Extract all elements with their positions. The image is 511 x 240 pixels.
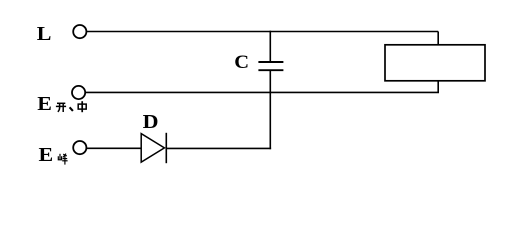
wire top (L to right corner) — [87, 31, 439, 33]
label E peak — [39, 143, 54, 166]
label L — [37, 22, 52, 45]
svg-text:E: E — [37, 92, 52, 115]
wire bottom left (E peak to diode) — [87, 147, 142, 149]
svg-text:E: E — [39, 143, 54, 166]
svg-text:D: D — [143, 110, 159, 133]
label E mid — [37, 92, 52, 115]
subscript kai — [56, 103, 66, 112]
capacitor C bottom plate — [258, 69, 283, 71]
subscript comma — [70, 107, 73, 111]
svg-text:L: L — [37, 22, 52, 45]
diode D triangle — [141, 134, 164, 163]
terminal E peak — [73, 141, 86, 154]
wire middle (E to right corner) — [85, 91, 439, 93]
svg-text:C: C — [234, 52, 249, 73]
subscript feng — [58, 154, 67, 165]
wire right vertical — [437, 32, 439, 93]
label D — [143, 110, 159, 133]
capacitor C top plate — [258, 61, 283, 63]
wire bottom right (diode to capacitor branch) — [166, 147, 271, 149]
subscript zhong — [78, 101, 86, 112]
terminal E mid — [72, 86, 85, 99]
terminal L — [73, 25, 86, 38]
load box — [385, 45, 485, 81]
capacitor C bottom lead — [269, 70, 271, 149]
label C — [234, 52, 249, 73]
diode D cathode bar — [165, 133, 167, 163]
capacitor C top lead — [269, 31, 271, 62]
